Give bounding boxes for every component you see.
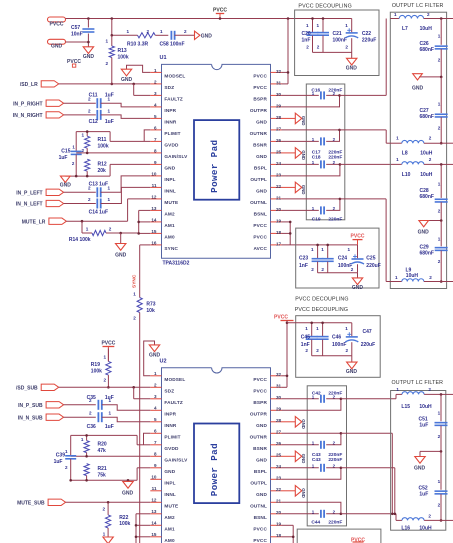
U2 pin 1 (MODSEL)	[150, 371, 185, 382]
svg-text:17: 17	[276, 241, 282, 246]
junction OUTNR join	[391, 513, 394, 516]
U2 pin 5 (INNR)	[150, 417, 177, 428]
svg-text:GND: GND	[352, 285, 364, 291]
svg-text:L10: L10	[402, 172, 411, 178]
junction AM0	[137, 232, 140, 235]
svg-text:INPL: INPL	[164, 480, 175, 485]
svg-text:2: 2	[184, 29, 187, 34]
wire decoupling2 bottom rail	[318, 272, 358, 274]
capacitor C11	[88, 92, 114, 108]
svg-text:1: 1	[86, 226, 89, 231]
svg-text:100nF: 100nF	[332, 342, 346, 348]
svg-text:C16: C16	[311, 87, 320, 93]
wire L9 out	[441, 281, 453, 283]
svg-text:25: 25	[276, 149, 282, 154]
svg-text:GND: GND	[115, 253, 127, 259]
U1 pin 23 (OUTPL)	[250, 172, 281, 182]
wire U2 OUTPR to LC	[341, 394, 402, 398]
junction C42 out	[340, 398, 343, 401]
wire U2 GAIN net	[71, 455, 151, 457]
junction PVCC pins branch	[287, 17, 290, 20]
svg-text:680nF: 680nF	[420, 47, 434, 53]
wire U2 PLIMIT tie	[144, 433, 151, 445]
svg-text:2: 2	[438, 434, 441, 439]
U1 pin 30 (BSPR)	[253, 92, 281, 102]
svg-text:3: 3	[154, 91, 157, 96]
title OUTPUT LC FILTER	[392, 3, 444, 9]
svg-text:1: 1	[108, 108, 111, 113]
svg-text:1: 1	[305, 326, 308, 331]
junction gnd tap 2	[440, 219, 443, 222]
svg-text:2: 2	[317, 44, 320, 49]
U2 pin 9 (GND)	[150, 463, 175, 474]
junction L15 out	[440, 393, 443, 396]
wire AVCC rail	[282, 244, 358, 246]
junction pvcc pin32	[287, 71, 290, 74]
junction divider mid	[86, 152, 89, 155]
svg-text:2: 2	[109, 226, 112, 231]
wire PVCC pins	[282, 19, 289, 84]
junction C18 out	[339, 163, 342, 166]
svg-text:GND: GND	[256, 423, 267, 428]
capacitor C46	[316, 323, 346, 356]
port /SD_SUB	[16, 384, 59, 391]
wire R14 out	[106, 232, 139, 234]
junction AM1	[137, 221, 140, 224]
svg-text:PVCC: PVCC	[101, 340, 115, 346]
svg-text:L7: L7	[402, 26, 408, 32]
capacitor C26	[420, 19, 448, 77]
junction R13-SDZ	[111, 83, 114, 86]
capacitor C43b	[282, 457, 343, 472]
svg-text:26: 26	[276, 441, 282, 446]
junction U2 AM0	[135, 536, 138, 539]
IC U2 body	[160, 358, 271, 543]
svg-text:7: 7	[154, 137, 157, 142]
wire C14 to INNL	[101, 187, 151, 203]
svg-text:FAULTZ: FAULTZ	[164, 400, 183, 405]
svg-text:/SD_SUB: /SD_SUB	[16, 386, 38, 392]
wire MUTE net	[66, 199, 150, 221]
junction L10 out	[440, 163, 443, 166]
svg-text:C24: C24	[338, 255, 347, 261]
svg-text:C14 1uF: C14 1uF	[89, 210, 108, 216]
svg-text:PVCC: PVCC	[253, 223, 267, 228]
svg-text:1uF: 1uF	[105, 119, 114, 125]
svg-text:1uF: 1uF	[105, 92, 114, 98]
U2 pin 2 (SDZ)	[150, 383, 174, 394]
svg-text:PVCC DECOUPLING: PVCC DECOUPLING	[295, 307, 348, 313]
junction U2 rail bottom	[69, 479, 72, 482]
svg-text:PLIMIT: PLIMIT	[164, 131, 180, 136]
svg-text:FAULTZ: FAULTZ	[164, 97, 183, 102]
svg-text:IN_P_SUB: IN_P_SUB	[18, 403, 43, 409]
ground below R22	[103, 532, 114, 543]
junction MUTE-R14	[81, 220, 84, 223]
svg-text:1: 1	[109, 411, 112, 416]
ground divider	[60, 176, 72, 188]
svg-text:C57: C57	[71, 25, 80, 31]
svg-text:R19: R19	[91, 362, 100, 368]
wire OUTPL to LC	[340, 163, 402, 165]
LC filter group box U1	[390, 12, 446, 288]
wire U2 GVDD net	[71, 435, 151, 444]
svg-text:2: 2	[429, 157, 432, 162]
wire INPR in U2	[64, 404, 96, 406]
U1 pin 20 (BSNL)	[254, 207, 282, 217]
U1 pin 25 (GND)	[256, 149, 281, 159]
U2 pin 20 (BSNL)	[254, 510, 282, 520]
svg-text:1nF: 1nF	[301, 342, 310, 348]
svg-text:3: 3	[154, 394, 157, 399]
svg-text:PVCC: PVCC	[253, 526, 267, 531]
svg-text:2: 2	[81, 148, 84, 153]
svg-text:GND: GND	[301, 488, 306, 498]
capacitor C28	[420, 164, 448, 220]
wire rail to R10	[112, 19, 138, 36]
svg-text:2: 2	[427, 12, 430, 17]
svg-text:26: 26	[276, 138, 282, 143]
PVCC supply port	[48, 17, 66, 27]
wire U2 decoupling rail	[287, 322, 352, 324]
svg-text:GND: GND	[51, 44, 63, 50]
svg-text:31: 31	[276, 80, 282, 85]
svg-text:L16: L16	[401, 526, 410, 532]
svg-text:C45: C45	[301, 335, 310, 341]
svg-text:2: 2	[102, 506, 105, 511]
svg-text:GND: GND	[301, 454, 306, 464]
svg-text:INPR: INPR	[164, 411, 176, 416]
svg-text:6: 6	[154, 125, 157, 130]
svg-text:GND: GND	[164, 469, 175, 474]
svg-text:1: 1	[103, 354, 106, 359]
ground IC right a	[282, 113, 306, 125]
svg-text:OUTPR: OUTPR	[250, 411, 268, 416]
svg-text:1: 1	[438, 236, 441, 241]
svg-text:C21: C21	[333, 31, 342, 37]
svg-text:IN_N_SUB: IN_N_SUB	[18, 415, 43, 421]
junction U2 divider mid	[85, 455, 88, 458]
svg-text:220uF: 220uF	[366, 263, 380, 269]
capacitor C36	[87, 411, 114, 431]
svg-text:1: 1	[348, 247, 351, 252]
IC U1 body	[160, 55, 271, 258]
svg-text:32: 32	[276, 69, 282, 74]
wire C35 to INPR	[102, 405, 151, 411]
svg-text:SYNC: SYNC	[164, 246, 178, 251]
svg-text:8: 8	[154, 452, 157, 457]
capacitor C29	[420, 221, 448, 282]
svg-text:100k: 100k	[118, 54, 129, 60]
ground IC right c	[282, 182, 306, 194]
IC U1 part number	[163, 260, 190, 266]
ground decoupling 3	[346, 362, 358, 375]
svg-text:GND: GND	[301, 150, 306, 160]
svg-text:1uF: 1uF	[105, 424, 114, 430]
svg-text:GVDD: GVDD	[164, 446, 179, 451]
svg-text:AM0: AM0	[164, 538, 175, 543]
U1 pin 15 (AM0)	[150, 229, 175, 240]
svg-text:220uF: 220uF	[361, 342, 375, 348]
wire U2 OUTNR down	[341, 433, 392, 514]
svg-text:12: 12	[151, 194, 157, 199]
capacitor C22 polarized	[345, 19, 376, 53]
svg-text:PVCC: PVCC	[253, 74, 267, 79]
svg-text:C39: C39	[56, 453, 65, 459]
svg-text:10uH: 10uH	[419, 526, 432, 532]
svg-text:2: 2	[103, 377, 106, 382]
junction U2 gnd tap	[127, 479, 130, 482]
svg-text:29: 29	[276, 407, 282, 412]
port MUTE_SUB	[17, 499, 66, 506]
wire U2 BSPL-OUTPL	[282, 468, 341, 480]
ground decoupling top	[346, 58, 358, 71]
wire U2 BSNR-OUTNR	[282, 433, 341, 445]
decoupling group box top	[295, 10, 379, 76]
svg-text:GAIN/SLV: GAIN/SLV	[164, 457, 188, 462]
ground U2 IC right b	[282, 451, 306, 463]
wire L10 out	[441, 163, 453, 165]
svg-text:2: 2	[438, 57, 441, 62]
svg-text:GND: GND	[256, 120, 267, 125]
ground decoupling 2	[352, 278, 364, 291]
wire PVCC rail	[66, 18, 352, 20]
svg-text:GND: GND	[256, 189, 267, 194]
wire C12 to INNR	[101, 115, 151, 119]
U2 pin 28 (GND)	[256, 418, 281, 428]
U2 pin 31 (PVCC)	[253, 384, 281, 394]
svg-text:C58 100nF: C58 100nF	[160, 41, 185, 47]
U2 pin 10 (INPL)	[150, 475, 175, 486]
resistor R22	[102, 502, 130, 537]
U1 pin 8 (GAIN/SLV)	[150, 148, 188, 159]
U2 pin 24 (BSPL)	[254, 464, 282, 474]
svg-text:1: 1	[438, 181, 441, 186]
inductor L7	[390, 12, 441, 32]
svg-text:OUTNR: OUTNR	[250, 434, 268, 439]
U1 pin 22 (GND)	[256, 184, 281, 194]
svg-text:6: 6	[154, 429, 157, 434]
U2 pin 14 (AM1)	[150, 521, 175, 532]
svg-text:1: 1	[438, 34, 441, 39]
svg-text:BSPL: BSPL	[254, 166, 267, 171]
svg-text:220nF: 220nF	[328, 391, 342, 397]
wire GAIN net	[76, 152, 150, 154]
junction R19-SDZ	[107, 386, 110, 389]
capacitor C21	[317, 19, 347, 53]
svg-text:R73: R73	[146, 302, 155, 308]
wire INPR in	[64, 102, 96, 104]
svg-text:20k: 20k	[98, 168, 107, 174]
svg-text:GND: GND	[301, 185, 306, 195]
svg-text:GND: GND	[412, 85, 424, 91]
resistor R13	[105, 35, 128, 84]
svg-text:1: 1	[396, 157, 399, 162]
svg-text:15: 15	[151, 532, 157, 537]
junction C57 top	[87, 17, 90, 20]
svg-text:BSPL: BSPL	[254, 469, 267, 474]
svg-text:220nF: 220nF	[328, 457, 342, 463]
svg-text:22: 22	[276, 184, 282, 189]
svg-text:BSNL: BSNL	[254, 515, 267, 520]
capacitor C58	[160, 29, 188, 47]
svg-text:U1: U1	[160, 55, 167, 61]
svg-text:R21: R21	[98, 466, 107, 472]
svg-text:PVCC: PVCC	[351, 233, 365, 239]
svg-text:5: 5	[154, 114, 157, 119]
U1 pin 24 (BSPL)	[254, 161, 282, 171]
junction L16 out	[440, 519, 443, 522]
resistor R10	[127, 29, 156, 47]
title PVCC DECOUPLING 3	[295, 307, 348, 313]
capacitor C43a	[282, 441, 343, 458]
capacitor C17	[282, 137, 343, 155]
junction R22 top	[107, 501, 110, 504]
port IN_P_LEFT	[16, 189, 63, 196]
wire SDZ net U2	[59, 386, 151, 388]
U2 power pad	[194, 424, 239, 504]
svg-text:C13 1uF: C13 1uF	[89, 182, 108, 188]
U1 pin 1 (MODSEL)	[150, 68, 185, 79]
svg-text:2: 2	[438, 502, 441, 507]
junction gnd tap 1	[440, 76, 443, 79]
U1 pin 13 (AM2)	[150, 206, 175, 217]
svg-text:PLIMIT: PLIMIT	[164, 434, 180, 439]
wire U2 PVCC pins 19-18	[282, 525, 294, 543]
svg-text:GND: GND	[346, 369, 358, 375]
junction C43a out	[340, 432, 343, 435]
U2 pin 22 (GND)	[256, 487, 281, 497]
GND supply port	[48, 39, 66, 49]
decoupling group box 3	[296, 316, 381, 378]
U2 pin 18 (PVCC)	[253, 533, 281, 543]
wire OUTNR to LC	[340, 130, 387, 143]
svg-text:2: 2	[438, 125, 441, 130]
svg-text:C46: C46	[332, 335, 341, 341]
svg-text:20: 20	[276, 510, 282, 515]
svg-text:1: 1	[438, 102, 441, 107]
U1 pin 18 (PVCC)	[253, 230, 281, 240]
svg-text:1uF: 1uF	[419, 491, 428, 497]
svg-text:C22: C22	[362, 31, 371, 37]
svg-text:MUTE_SUB: MUTE_SUB	[17, 501, 45, 507]
wire LC gnd tap 2	[424, 220, 442, 222]
svg-text:27: 27	[276, 126, 282, 131]
svg-text:GAIN/SLV: GAIN/SLV	[164, 154, 188, 159]
junction U2 FAULTZ tie	[132, 386, 135, 389]
wire L16 out	[441, 519, 453, 521]
capacitor C57	[71, 19, 94, 47]
svg-text:1: 1	[127, 29, 130, 34]
svg-text:1uF: 1uF	[419, 422, 428, 428]
capacitor C15	[59, 132, 82, 177]
svg-text:2: 2	[351, 267, 354, 272]
svg-text:1: 1	[81, 437, 84, 442]
svg-text:1uF: 1uF	[59, 155, 68, 161]
ground right of C58	[195, 31, 213, 39]
svg-text:MUTE: MUTE	[164, 200, 178, 205]
wire L15 out	[441, 393, 453, 395]
junction R12 bottom	[86, 175, 89, 178]
capacitor C35	[87, 395, 114, 410]
U1 pin 7 (GVDD)	[150, 137, 179, 148]
svg-text:29: 29	[276, 103, 282, 108]
svg-text:9: 9	[154, 160, 157, 165]
U1 pin 6 (PLIMIT)	[150, 125, 180, 136]
svg-text:2: 2	[305, 348, 308, 353]
junction C19 out	[339, 198, 342, 201]
svg-text:C25: C25	[366, 255, 375, 261]
wire decoupling bottom rail	[313, 51, 352, 53]
svg-text:PVCC DECOUPLING: PVCC DECOUPLING	[295, 296, 348, 302]
wire BSPL-OUTPL	[282, 164, 340, 176]
wire FAULTZ tie	[134, 84, 151, 96]
capacitor C47 polarized	[345, 323, 375, 356]
svg-text:1: 1	[438, 479, 441, 484]
wire U2 BSPR-OUTPR	[282, 399, 341, 411]
svg-text:MODSEL: MODSEL	[164, 377, 185, 382]
svg-text:GND: GND	[83, 54, 95, 60]
resistor R19	[91, 348, 111, 387]
svg-text:1: 1	[154, 371, 157, 376]
inductor L8	[386, 136, 441, 157]
svg-text:1: 1	[438, 410, 441, 415]
svg-text:24: 24	[276, 161, 282, 166]
junction U2 AM1	[135, 524, 138, 527]
title PVCC DECOUPLING 2	[295, 296, 348, 302]
svg-text:AVCC: AVCC	[253, 246, 267, 251]
wire L8 out	[441, 142, 453, 144]
svg-text:100k: 100k	[91, 368, 102, 374]
wire gnd drop	[120, 233, 122, 244]
inductor L16	[401, 514, 441, 532]
svg-text:GND: GND	[301, 419, 306, 429]
junction L9 out	[440, 280, 443, 283]
port IN_N_LEFT	[16, 200, 64, 207]
U1 pin 21 (OUTNL)	[250, 195, 281, 205]
svg-text:GND: GND	[164, 166, 175, 171]
svg-text:C44: C44	[311, 519, 320, 525]
decoupling group box 4	[297, 529, 381, 543]
svg-text:13: 13	[151, 509, 157, 514]
U1 pin 5 (INNR)	[150, 114, 177, 125]
junction U2 pin18	[292, 536, 295, 539]
svg-text:MUTE_LR: MUTE_LR	[22, 219, 46, 225]
U2 pin 7 (GVDD)	[150, 440, 179, 451]
svg-text:1: 1	[108, 197, 111, 202]
U2 pin 29 (OUTPR)	[250, 407, 282, 417]
ground at R14	[115, 244, 127, 259]
wire U2 AM tie	[136, 514, 150, 543]
svg-text:OUTPUT LC FILTER: OUTPUT LC FILTER	[392, 380, 444, 386]
svg-text:GND: GND	[60, 182, 72, 188]
svg-text:1: 1	[321, 247, 324, 252]
capacitor C20	[302, 19, 319, 53]
resistor R11	[81, 132, 108, 153]
svg-text:IN_N_LEFT: IN_N_LEFT	[16, 202, 43, 208]
PVCC symbol box4	[351, 537, 365, 543]
ground IC right b	[282, 148, 306, 160]
capacitor C18	[282, 154, 343, 168]
junction L7 out	[440, 17, 443, 20]
U1 pin 17 (AVCC)	[253, 241, 281, 251]
wire INNL in	[64, 203, 96, 205]
svg-text:L15: L15	[401, 404, 410, 410]
svg-text:14: 14	[151, 521, 157, 526]
wire C36 to INNR	[102, 417, 151, 422]
svg-text:2: 2	[89, 411, 92, 416]
svg-text:220uF: 220uF	[362, 37, 376, 43]
